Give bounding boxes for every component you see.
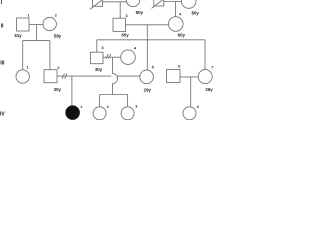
svg-text:80y: 80y <box>192 10 200 15</box>
marriage line III-2 to III-5 (right part, from bridge) <box>117 75 140 77</box>
marriage line II-1 to II-2 <box>29 24 43 26</box>
svg-text:2: 2 <box>107 105 109 109</box>
individual III-1 (female) <box>16 70 29 83</box>
svg-text:6: 6 <box>178 65 180 69</box>
svg-text:5: 5 <box>152 66 154 70</box>
individual III-4 (female) <box>121 50 136 65</box>
wire: drop to III-3 <box>96 40 98 52</box>
svg-text:30y: 30y <box>95 67 103 72</box>
svg-text:1: 1 <box>26 65 28 69</box>
wire: sibship line children of III-3/III-4 <box>100 94 128 96</box>
marriage line I-1 to I-2 <box>103 1 127 3</box>
svg-text:4: 4 <box>134 46 137 50</box>
individual II-3 (male) <box>113 18 126 31</box>
svg-text:7: 7 <box>211 65 213 69</box>
deceased slash I-3 <box>152 0 167 8</box>
individual III-3 (male) <box>91 52 104 64</box>
wire: drop to III-7 <box>204 40 206 70</box>
svg-text:IV: IV <box>0 112 5 118</box>
wire: drop to III-5 <box>146 40 148 70</box>
svg-text:2: 2 <box>55 13 57 17</box>
wire: descent II-3/II-4 couple to sibship <box>146 25 148 40</box>
individual I-3 (deceased male, square clipped at top) <box>154 0 164 6</box>
svg-text:65y: 65y <box>121 33 129 38</box>
svg-text:1: 1 <box>27 14 29 18</box>
marriage line III-6 to III-7 <box>180 76 198 78</box>
svg-text:3: 3 <box>102 46 104 50</box>
separation mark III-2/III-5 <box>62 74 64 79</box>
svg-text:3: 3 <box>135 105 137 109</box>
svg-text:4: 4 <box>179 13 182 17</box>
wire: descent II-1/II-2 couple to sibship <box>36 25 38 41</box>
wire: sibship line children of II-3/II-4 <box>97 39 205 41</box>
individual II-2 (female) <box>43 17 56 30</box>
svg-text:1: 1 <box>80 105 82 109</box>
wire: descent I-1/I-2 couple to II-3 <box>119 2 121 18</box>
wire: descent III-6/III-7 to IV-4 <box>190 77 192 107</box>
svg-text:60y: 60y <box>178 32 186 37</box>
svg-text:30y: 30y <box>54 87 62 92</box>
individual IV-3 (female) <box>121 107 134 120</box>
individual IV-2 (female) <box>93 107 106 120</box>
individual I-1 (deceased male, square clipped at top) <box>93 0 103 6</box>
svg-text:29y: 29y <box>144 88 152 93</box>
marriage line III-3 to III-4 <box>103 56 121 58</box>
wire: sibship line children of II-1/II-2 <box>23 40 50 42</box>
svg-text:26y: 26y <box>205 87 213 92</box>
svg-text:61y: 61y <box>14 33 22 38</box>
individual III-6 (male) <box>167 69 181 82</box>
separation mark III-3/III-4 <box>106 54 108 59</box>
individual III-2 (male) <box>44 70 57 83</box>
svg-text:58y: 58y <box>54 33 62 38</box>
wire: descent III-2/III-5 to IV-1 <box>71 76 73 106</box>
individual II-1 (male) <box>17 18 30 31</box>
individual II-4 (female) <box>169 17 184 32</box>
wire: descent III-3/III-4 to IV sibship with bridge over III-2/III-5 line <box>113 57 118 94</box>
marriage line I-3 to I-4 <box>164 1 182 3</box>
wire: drop to III-1 <box>22 41 24 70</box>
marriage line II-3 to II-4 <box>126 24 169 26</box>
wire: descent I-3/I-4 couple to II-4 <box>175 2 177 17</box>
svg-text:4: 4 <box>197 105 200 109</box>
svg-text:III: III <box>0 61 5 67</box>
wire: drop to IV-3 <box>127 95 129 107</box>
individual III-5 (female) <box>140 70 154 84</box>
individual IV-1 (affected female, filled) <box>66 106 80 120</box>
individual IV-4 (female) <box>183 107 196 120</box>
individual I-2 (female, circle clipped at top) <box>126 0 139 7</box>
svg-text:90y: 90y <box>136 10 144 15</box>
wire: drop to III-2 <box>49 41 51 70</box>
svg-text:I: I <box>1 0 3 6</box>
svg-text:II: II <box>1 24 4 30</box>
individual III-7 (female) <box>198 70 212 84</box>
svg-text:3: 3 <box>126 14 128 18</box>
marriage line III-2 to III-5 (left part, ends at bridge) <box>57 75 111 77</box>
svg-text:2: 2 <box>57 66 59 70</box>
deceased slash I-1 <box>90 0 105 9</box>
individual I-4 (female, circle clipped at top) <box>181 0 196 8</box>
wire: drop to IV-2 <box>99 95 101 107</box>
